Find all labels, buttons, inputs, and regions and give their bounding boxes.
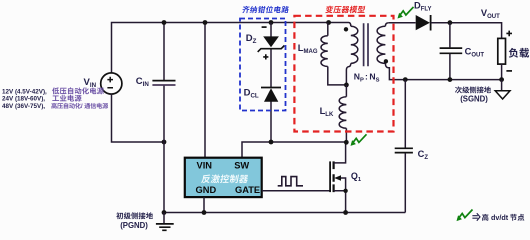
label transformer model title (325, 6, 334, 13)
node COUT top (448, 20, 453, 25)
label plus DZ (263, 54, 268, 59)
svg-text:GND: GND (196, 185, 217, 195)
wire primary ground rail (164, 212, 405, 214)
wire zener branch (270, 23, 272, 143)
label plus load (506, 31, 512, 37)
zener DZ (258, 36, 285, 52)
svg-text::: : (365, 71, 368, 81)
transformer model box (294, 16, 393, 132)
capacitor COUT (440, 23, 463, 80)
svg-text:SW: SW (234, 161, 249, 171)
svg-text:VIN: VIN (197, 161, 213, 171)
capacitor CIN (152, 23, 175, 213)
diode DFLY (416, 15, 431, 31)
label flyback controller (201, 175, 211, 184)
node rail-VINpin (203, 20, 208, 25)
gate pulse waveform (278, 177, 303, 186)
wire GND pin (203, 197, 205, 212)
transistor Q1 (330, 142, 346, 212)
node PGND-CIN (162, 210, 167, 215)
node primary dot mark (344, 27, 348, 31)
label PGND (116, 212, 123, 219)
node LMAG-NP junction (344, 83, 349, 88)
wire GATE net (262, 190, 330, 192)
label load (509, 48, 518, 58)
high dv/dt arrow at DFLY (399, 7, 414, 17)
node PGND-Q1 source (343, 210, 348, 215)
svg-text:/: / (81, 103, 83, 110)
label SGND (455, 86, 462, 93)
node VIN/CIN junction (162, 140, 167, 145)
node rail-DZ (269, 20, 274, 25)
node rail-CIN (162, 20, 167, 25)
node PGND-GND pin (202, 210, 207, 215)
node secondary return load (499, 77, 504, 82)
svg-text:(SGND): (SGND) (460, 95, 488, 104)
transformer primary NP (349, 23, 351, 27)
transformer core (364, 23, 368, 66)
zener clamp box (240, 19, 286, 111)
inductor LLK (345, 85, 347, 97)
wire to controller VIN pin (204, 23, 206, 158)
wire load bottom (501, 64, 503, 80)
controller U1 box (185, 158, 262, 197)
resistor load (498, 38, 506, 64)
label minus DZ (262, 26, 267, 28)
node DCL-SW (269, 140, 274, 145)
node secondary dot mark (384, 59, 388, 63)
svg-text:GATE: GATE (235, 185, 260, 195)
label legend (472, 213, 480, 221)
node LLK-drain junction (344, 140, 349, 145)
wire DFLY to VOUT (431, 23, 502, 39)
node secondary return COUT (448, 77, 453, 82)
node secondary return CZ (403, 77, 408, 82)
svg-text:48V (36V-75V),: 48V (36V-75V), (2, 103, 45, 110)
wire SW net (242, 142, 346, 158)
ground PGND symbol (156, 213, 174, 231)
label zener clamp title (242, 6, 250, 13)
label minus load (506, 70, 512, 72)
svg-text:12V (4.5V-42V),: 12V (4.5V-42V), (2, 88, 47, 95)
wire secondary top to DFLY (388, 22, 415, 24)
svg-text:(PGND): (PGND) (120, 221, 148, 230)
node rail-LMAG (326, 20, 331, 25)
high dv/dt legend arrow (458, 210, 473, 220)
node Q1 source-body (343, 189, 347, 193)
diode DCL (261, 88, 281, 102)
capacitor CZ (395, 80, 413, 213)
svg-text:24V (18V-60V),: 24V (18V-60V), (2, 96, 45, 103)
svg-text:dv/dt: dv/dt (491, 213, 509, 222)
wire VIN bottom (112, 94, 165, 142)
transformer secondary NS (385, 23, 388, 26)
ground SGND symbol (495, 80, 510, 99)
source VIN (101, 73, 122, 94)
wire top rail (112, 23, 349, 73)
high dv/dt arrow at drain (352, 134, 367, 144)
inductor LMAG (327, 23, 329, 36)
